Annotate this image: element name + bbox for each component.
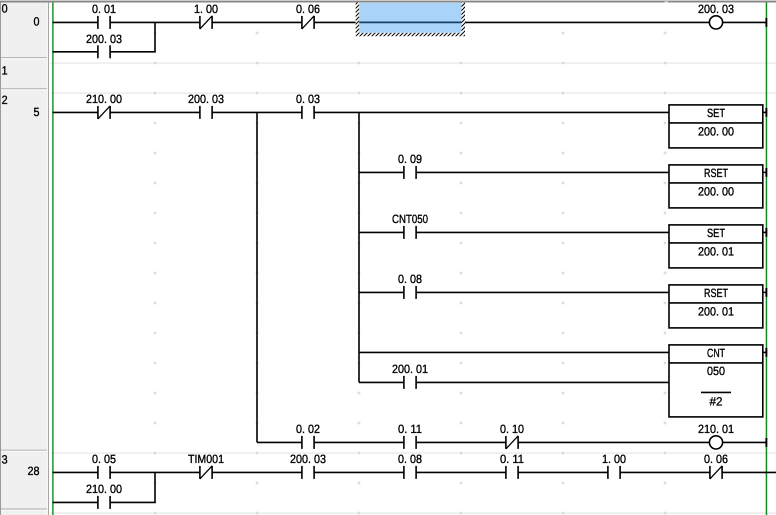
svg-text:200. 01: 200. 01 — [698, 304, 734, 318]
margin rung separator — [1, 450, 47, 451]
wire 0.06 to selected cell — [314, 21, 356, 23]
right bus tick y292.4 — [765, 288, 767, 297]
box RSET wire to bus — [763, 291, 767, 293]
grid dots — [154, 32, 667, 515]
svg-text:RSET: RSET — [704, 166, 728, 180]
wire 0.05 to TIM001 — [110, 471, 200, 473]
svg-text:0. 11: 0. 11 — [500, 452, 524, 466]
svg-text:200. 00: 200. 00 — [698, 184, 734, 198]
wire 200.03 to 0.03 — [212, 111, 302, 113]
wire 0.08 to 0.11 — [416, 471, 506, 473]
coil 210.01 — [709, 436, 722, 449]
wire rung0 row1 left — [53, 21, 98, 23]
box RSET wire to bus — [763, 171, 767, 173]
contact 0.08 — [403, 286, 405, 299]
svg-text:0. 06: 0. 06 — [704, 452, 728, 466]
right bus bar — [766, 2, 768, 515]
branch junction vertical rung0 — [154, 22, 156, 52]
top window border strip — [0, 0, 776, 2]
branch vertical x257 — [256, 112, 258, 442]
svg-text:0. 10: 0. 10 — [500, 422, 524, 436]
wire coil to right bus — [723, 21, 767, 23]
margin rung separator — [1, 509, 47, 510]
contact 200.03 rung3 — [301, 466, 303, 479]
svg-text:RSET: RSET — [704, 286, 728, 300]
right bus tick y112.4 — [765, 108, 767, 117]
svg-text:#2: #2 — [710, 394, 723, 408]
instruction box RSET at y164.9 — [669, 165, 763, 208]
svg-text:200. 03: 200. 03 — [188, 92, 224, 106]
coil 200.03 — [709, 16, 722, 29]
branch junction vertical rung3 — [154, 472, 156, 503]
wire 0.06 to edge — [722, 471, 776, 473]
wire rung3 row1 left — [53, 471, 98, 473]
wire 200.01 to CNT reset — [416, 381, 669, 383]
svg-text:28: 28 — [28, 464, 40, 478]
contact 1.00 (NC) — [199, 16, 201, 29]
contact 0.11 — [403, 436, 405, 449]
contact 200.01 — [403, 376, 405, 389]
instruction box CNT — [669, 345, 763, 417]
svg-text:TIM001: TIM001 — [188, 452, 224, 466]
instruction box SET at y104.9 — [669, 105, 763, 148]
svg-text:CNT050: CNT050 — [392, 212, 428, 226]
right bus tick y352.4 — [765, 348, 767, 357]
ladder rung boundary line — [50, 93, 776, 94]
svg-text:0. 08: 0. 08 — [398, 452, 422, 466]
contact 200.03 branch — [97, 45, 99, 58]
wire CNT050 to SET — [416, 231, 669, 233]
wire 210.00 to 200.03 — [110, 111, 200, 113]
svg-text:0. 08: 0. 08 — [398, 272, 422, 286]
wire rung2 row1 left — [53, 111, 98, 113]
wire row 0.08 — [359, 291, 404, 293]
svg-text:1. 00: 1. 00 — [602, 452, 626, 466]
wire row 0.09 — [359, 171, 404, 173]
wire to CNT count input — [359, 351, 669, 353]
svg-text:0. 09: 0. 09 — [398, 152, 422, 166]
contact TIM001 (NC) — [199, 466, 201, 479]
contact 200.03 rung2 — [199, 106, 201, 119]
wire branch to junction rung3 — [110, 501, 156, 503]
wire 1.00 to 0.06 — [620, 471, 710, 473]
svg-text:210. 00: 210. 00 — [86, 92, 122, 106]
CNT box wire to bus — [763, 351, 767, 353]
wire row output 210.01 — [257, 441, 302, 443]
wire selected cell to coil — [465, 21, 709, 23]
left window edge — [0, 2, 1, 515]
svg-text:200. 03: 200. 03 — [290, 452, 326, 466]
instruction box RSET at y284.9 — [669, 285, 763, 328]
box SET wire to bus — [763, 231, 767, 233]
contact 0.02 — [301, 436, 303, 449]
svg-text:SET: SET — [707, 106, 726, 120]
svg-text:200. 03: 200. 03 — [698, 2, 734, 16]
wire rung3 branch left — [53, 501, 98, 503]
instruction box SET at y224.9 — [669, 225, 763, 268]
svg-text:200. 01: 200. 01 — [698, 244, 734, 258]
contact 0.08 rung3 — [403, 466, 405, 479]
svg-text:1. 00: 1. 00 — [194, 2, 218, 16]
contact 0.09 — [403, 166, 405, 179]
svg-text:200. 03: 200. 03 — [86, 32, 122, 46]
margin right etched line — [48, 2, 49, 515]
svg-text:210. 00: 210. 00 — [86, 482, 122, 496]
svg-text:210. 01: 210. 01 — [698, 422, 734, 436]
svg-text:5: 5 — [34, 105, 40, 119]
contact 0.03 — [301, 106, 303, 119]
wire 0.11 to 0.10 — [416, 441, 506, 443]
right bus tick y22.4 — [765, 18, 767, 27]
svg-text:0. 05: 0. 05 — [92, 452, 116, 466]
wire 0.02 to 0.11 — [314, 441, 404, 443]
wire 0.01 to 1.00 — [110, 21, 200, 23]
contact 0.01 — [97, 16, 99, 29]
svg-text:0. 01: 0. 01 — [92, 2, 116, 16]
right bus tick y232.4 — [765, 228, 767, 237]
right bus tick y442.4 — [765, 438, 767, 447]
wire 0.11 to 1.00 — [518, 471, 608, 473]
ladder rung boundary line — [50, 513, 776, 514]
svg-text:0: 0 — [2, 2, 8, 16]
svg-text:0. 03: 0. 03 — [296, 92, 320, 106]
wire row 200.01 — [359, 381, 404, 383]
contact CNT050 — [403, 226, 405, 239]
svg-text:050: 050 — [707, 364, 725, 378]
wire coil 210.01 to bus — [723, 441, 767, 443]
wire 0.10 to coil 210.01 — [518, 441, 709, 443]
margin rung separator — [1, 88, 47, 89]
contact 0.06 (NC) — [301, 16, 303, 29]
contact 0.06 rung3 (NC) — [709, 466, 711, 479]
left margin panel — [0, 2, 47, 515]
selected cell hatched frame — [356, 3, 465, 37]
wire row CNT050 — [359, 231, 404, 233]
branch vertical x359 — [358, 112, 360, 382]
ladder rung boundary line — [50, 63, 776, 64]
contact 0.05 — [97, 466, 99, 479]
svg-text:1: 1 — [2, 63, 8, 77]
svg-text:CNT: CNT — [707, 346, 725, 360]
right bus tick y172.4 — [765, 168, 767, 177]
box SET wire to bus — [763, 111, 767, 113]
contact 210.00 (NC) — [97, 106, 99, 119]
contact 0.10 (NC) — [505, 436, 507, 449]
svg-text:200. 01: 200. 01 — [392, 362, 428, 376]
contact 0.11 rung3 — [505, 466, 507, 479]
svg-text:SET: SET — [707, 226, 726, 240]
svg-text:0. 11: 0. 11 — [398, 422, 422, 436]
svg-text:3: 3 — [2, 452, 8, 466]
wire branch to junction — [110, 51, 156, 53]
ladder rung boundary line — [50, 453, 776, 454]
svg-text:200. 00: 200. 00 — [698, 124, 734, 138]
margin rung separator — [1, 57, 47, 58]
left bus bar — [52, 2, 53, 515]
wire 200.03 to 0.08 — [314, 471, 404, 473]
selected cell blue fill — [359, 3, 461, 33]
svg-text:0: 0 — [34, 15, 40, 29]
svg-text:0. 02: 0. 02 — [296, 422, 320, 436]
svg-text:2: 2 — [2, 93, 8, 107]
contact 210.00 branch rung3 — [97, 496, 99, 509]
wire 0.08 to RSET — [416, 291, 669, 293]
wire 0.03 to SET box — [314, 111, 669, 113]
contact 1.00 rung3 — [607, 466, 609, 479]
top strip notch — [665, 1, 669, 2]
wire rung0 branch left — [53, 51, 98, 53]
wire 0.09 to RSET — [416, 171, 669, 173]
wire through selected cell (dark) — [359, 21, 461, 23]
svg-text:0. 06: 0. 06 — [296, 2, 320, 16]
wire 1.00 to 0.06 — [212, 21, 302, 23]
wire TIM001 to 200.03 — [212, 471, 302, 473]
